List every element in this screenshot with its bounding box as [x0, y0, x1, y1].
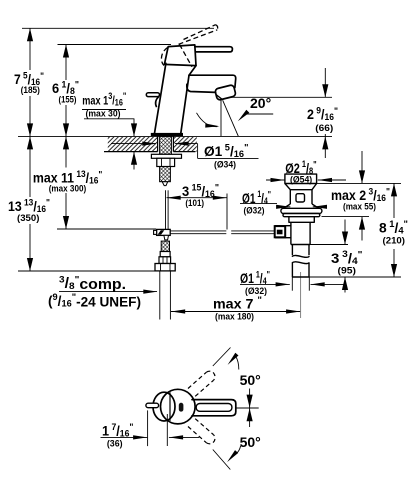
- svg-text:(36): (36): [107, 439, 123, 450]
- svg-text:(101): (101): [185, 198, 204, 209]
- svg-text:(Ø32): (Ø32): [244, 206, 265, 217]
- svg-text:(155): (155): [59, 95, 77, 106]
- svg-text:(max 30): (max 30): [86, 109, 121, 120]
- svg-text:2 9/16": 2 9/16": [307, 106, 338, 124]
- svg-text:20°: 20°: [250, 95, 271, 111]
- svg-text:(max 300): (max 300): [49, 183, 86, 194]
- svg-text:(66): (66): [315, 123, 333, 134]
- svg-text:(95): (95): [338, 266, 357, 277]
- svg-text:(Ø54): (Ø54): [290, 174, 312, 185]
- svg-text:(210): (210): [383, 236, 406, 247]
- svg-text:(Ø34): (Ø34): [214, 160, 236, 171]
- svg-text:1 7/16": 1 7/16": [102, 422, 134, 440]
- svg-text:(max 55): (max 55): [343, 202, 376, 213]
- svg-text:max 7 ": max 7 ": [213, 295, 262, 312]
- svg-text:(350): (350): [17, 213, 39, 224]
- svg-text:(max 180): (max 180): [215, 312, 254, 323]
- svg-text:(185): (185): [21, 85, 40, 96]
- svg-text:50°: 50°: [240, 372, 261, 388]
- svg-text:50°: 50°: [240, 434, 261, 450]
